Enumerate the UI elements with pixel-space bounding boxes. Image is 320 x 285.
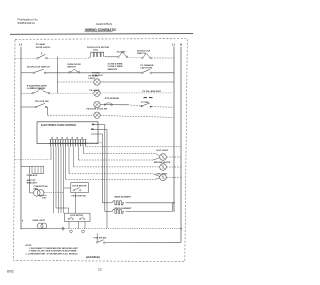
svg-text:HOT LIGHT: HOT LIGHT [157, 150, 169, 152]
svg-text:P1 BLACK: P1 BLACK [27, 174, 38, 177]
svg-text:RTD SENSOR: RTD SENSOR [105, 98, 120, 100]
svg-text:ELECTRONIC OVEN CONTROL: ELECTRONIC OVEN CONTROL [41, 124, 77, 127]
svg-text:P7 TAN: P7 TAN [141, 101, 149, 104]
svg-text:5995344414: 5995344414 [18, 21, 35, 25]
svg-text:BAKE ELEMENT: BAKE ELEMENT [115, 196, 132, 199]
svg-text:LATCH SW: LATCH SW [141, 67, 153, 70]
svg-text:2. WIRE COLOR CODE IS SHOWN ON: 2. WIRE COLOR CODE IS SHOWN ON EACH WIRE… [29, 250, 78, 253]
svg-text:P BK-WH SW: P BK-WH SW [94, 237, 107, 239]
svg-text:L2: L2 [19, 44, 23, 47]
svg-text:P5 DOOR LOCK SW: P5 DOOR LOCK SW [86, 109, 108, 111]
svg-text:115V: 115V [42, 197, 47, 199]
svg-text:OVEN LIGHT: OVEN LIGHT [32, 220, 45, 222]
svg-text:LOCK MOTOR: LOCK MOTOR [70, 215, 84, 217]
svg-text:NOTE:: NOTE: [26, 245, 33, 247]
svg-text:4 LINE 4 WIRE: 4 LINE 4 WIRE [108, 63, 123, 66]
svg-text:N: N [180, 42, 182, 46]
svg-text:8/02: 8/02 [7, 269, 14, 273]
svg-text:DOOR LOCK MOTOR: DOOR LOCK MOTOR [87, 47, 109, 49]
svg-text:L1: L1 [172, 42, 176, 46]
svg-text:COIL: COIL [93, 49, 99, 51]
svg-text:GLEF378AS: GLEF378AS [96, 22, 112, 26]
svg-text:8: 8 [22, 220, 24, 222]
svg-text:DOOR MOTOR: DOOR MOTOR [72, 185, 87, 187]
svg-text:P2 YEL BRN WHT: P2 YEL BRN WHT [143, 91, 162, 93]
svg-text:P4 MOTOR SW: P4 MOTOR SW [72, 195, 86, 198]
svg-text:SERVICE: SERVICE [108, 69, 118, 71]
svg-text:1. DISCONNECT POWER BEFORE SER: 1. DISCONNECT POWER BEFORE SERVICING UNI… [29, 248, 79, 250]
svg-text:DOOR LOCK SWITCH: DOOR LOCK SWITCH [27, 67, 50, 69]
svg-text:P8 LOCK SW: P8 LOCK SW [35, 101, 50, 103]
svg-text:12: 12 [98, 268, 102, 272]
svg-text:SWITCH: SWITCH [67, 66, 76, 68]
svg-text:WIRING SCHEMATIC: WIRING SCHEMATIC [85, 28, 117, 32]
svg-text:3. COMPONENT REF : IF SHOWN AP: 3. COMPONENT REF : IF SHOWN APPLY ALL MO… [26, 253, 79, 256]
svg-text:(abb4db4e): (abb4db4e) [86, 255, 100, 259]
svg-text:DOOR LATCH: DOOR LATCH [36, 46, 51, 49]
svg-text:P9 GRAY: P9 GRAY [36, 43, 46, 46]
svg-text:BRACKET: BRACKET [27, 182, 38, 185]
